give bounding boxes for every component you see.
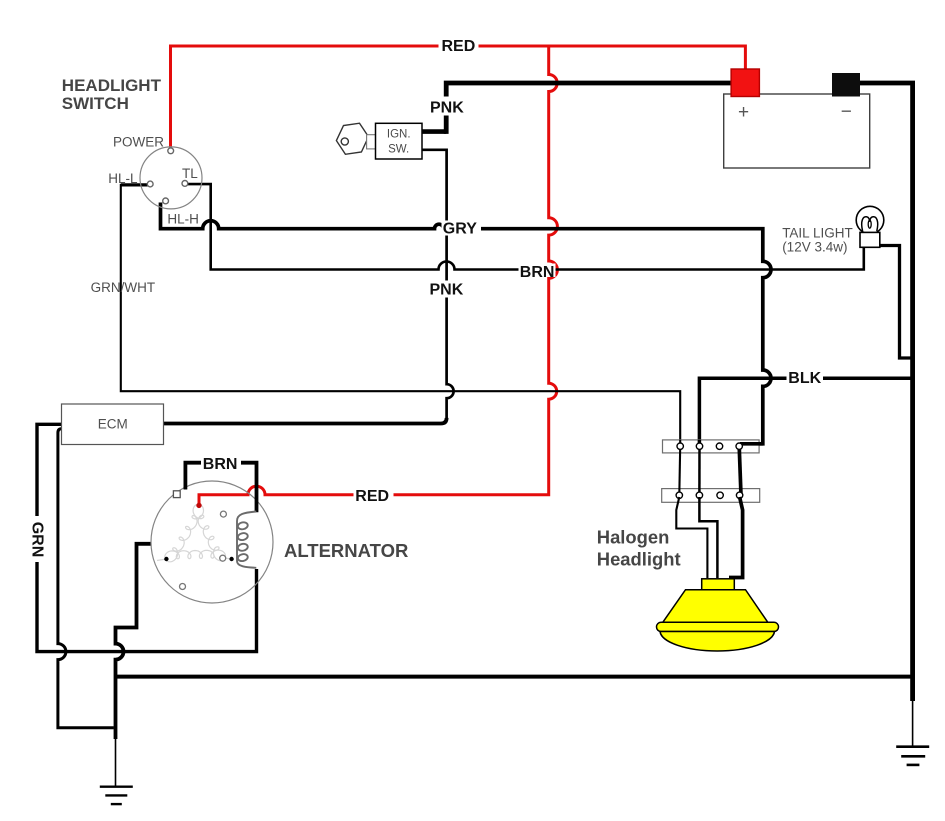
connector holes upper xyxy=(677,443,742,449)
battery - terminal (black) xyxy=(832,73,860,97)
alternator stator delta winding xyxy=(157,505,232,562)
connector pin wires between strips xyxy=(678,446,681,495)
tail light base xyxy=(860,232,880,247)
ignition key (hexagon) xyxy=(336,123,375,154)
headlight lead 1 xyxy=(676,497,707,578)
tail light bulb xyxy=(856,206,884,234)
svg-text:IGN.: IGN. xyxy=(387,128,411,140)
wire BLK: headlight connector pin2 up to battery - rail xyxy=(699,378,911,446)
wire label PNK top xyxy=(428,97,466,116)
svg-text:+: + xyxy=(738,102,749,123)
svg-text:BRN: BRN xyxy=(520,264,555,281)
svg-text:PNK: PNK xyxy=(430,281,464,298)
wire label RED at alternator xyxy=(354,487,394,502)
svg-text:POWER: POWER xyxy=(113,134,164,149)
wire: alternator frame to ground junction xyxy=(116,544,152,739)
halogen headlight bulb xyxy=(657,579,779,651)
svg-text:GRY: GRY xyxy=(443,221,477,238)
svg-text:SW.: SW. xyxy=(388,143,409,155)
headlight switch body xyxy=(140,147,202,209)
alternator BRN bracket wire xyxy=(185,463,256,513)
wire PNK: ignition switch lower terminal down to ECM xyxy=(422,150,454,420)
wire BRN: switch TL terminal across to tail light xyxy=(188,184,864,269)
svg-text:(12V 3.4w): (12V 3.4w) xyxy=(782,240,847,255)
terminal TL xyxy=(182,181,188,187)
terminal HL-L xyxy=(147,181,153,187)
battery body xyxy=(724,94,870,168)
alternator body xyxy=(151,481,273,603)
terminal HL-H xyxy=(163,198,169,204)
wire: bottom ground bus xyxy=(116,675,913,679)
svg-text:PNK: PNK xyxy=(430,99,464,116)
wire RED: headlight switch POWER up and across to battery + xyxy=(171,46,746,504)
battery + terminal (red) xyxy=(731,69,759,97)
svg-text:HEADLIGHT: HEADLIGHT xyxy=(62,76,162,95)
svg-text:Halogen: Halogen xyxy=(597,527,670,548)
wire GRN: ECM to alternator stator xyxy=(37,424,257,651)
headlight connector strip upper xyxy=(663,440,760,453)
wire label GRY xyxy=(442,221,482,236)
wire: tail light to battery - rail xyxy=(879,246,912,359)
svg-text:BRN: BRN xyxy=(203,456,238,473)
ground symbol left xyxy=(100,737,133,804)
wire label RED top xyxy=(439,39,479,54)
wire label PNK mid xyxy=(428,281,466,298)
ground symbol right xyxy=(896,699,929,765)
headlight lead 3 (thick) xyxy=(729,497,743,578)
svg-text:HL-H: HL-H xyxy=(167,212,199,227)
wire GRN/WHT: HL-L terminal down and across to connector pin1 xyxy=(121,183,148,186)
svg-text:GRN/WHT: GRN/WHT xyxy=(91,280,156,295)
svg-text:TL: TL xyxy=(182,166,198,181)
svg-text:TAIL LIGHT: TAIL LIGHT xyxy=(782,226,853,241)
svg-text:ECM: ECM xyxy=(98,417,128,432)
ignition switch box xyxy=(376,123,423,159)
svg-text:−: − xyxy=(841,101,852,122)
wire label BRN mid xyxy=(519,264,556,278)
svg-text:RED: RED xyxy=(442,38,476,55)
svg-text:HL-L: HL-L xyxy=(108,171,138,186)
terminal POWER xyxy=(168,148,174,154)
svg-text:Headlight: Headlight xyxy=(597,548,681,569)
headlight lead 2 xyxy=(699,497,717,578)
wire GRY: HL-H terminal across and down to headlight connector pin4 xyxy=(161,203,772,444)
headlight connector strip lower xyxy=(662,489,760,503)
svg-text:BLK: BLK xyxy=(788,370,821,387)
alternator field coil xyxy=(237,512,256,568)
wire RED: vertical feed with hops, down to alternator xyxy=(199,46,557,504)
svg-text:GRN: GRN xyxy=(29,522,46,558)
ECM box xyxy=(62,404,164,445)
svg-text:RED: RED xyxy=(355,488,389,505)
svg-text:ALTERNATOR: ALTERNATOR xyxy=(284,540,408,561)
svg-text:SWITCH: SWITCH xyxy=(62,94,129,113)
wire label GRN rotated xyxy=(29,516,45,562)
wire stubs over strips (GRY to pin4, BLK to pin2, GRN/WHT to pin1) xyxy=(740,442,763,446)
wire label BRN at alternator xyxy=(201,455,241,470)
alternator terminals xyxy=(173,491,180,498)
connector holes lower xyxy=(676,492,743,498)
wire PNK: ignition switch to battery + (thick) xyxy=(422,129,447,134)
wire: ECM lower terminal to ground junction xyxy=(58,429,114,728)
wire label BLK xyxy=(787,370,824,385)
wire: battery - to right-side rail and ground xyxy=(860,83,913,701)
